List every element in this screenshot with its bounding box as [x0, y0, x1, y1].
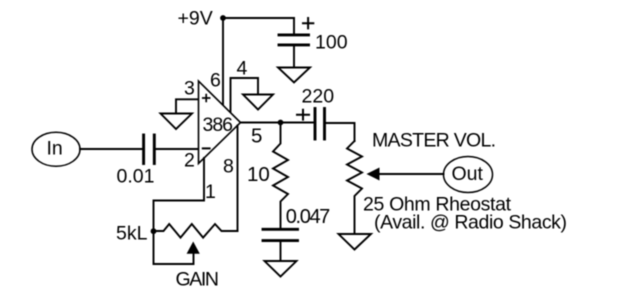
wire from In to coupling cap [80, 148, 142, 150]
wire 100 cap top stub [293, 18, 295, 34]
svg-text:8: 8 [223, 156, 234, 178]
svg-text:3: 3 [184, 78, 195, 100]
svg-text:+9V: +9V [178, 8, 213, 30]
svg-text:0.01: 0.01 [117, 166, 155, 188]
rheostat MASTER VOL zigzag [347, 141, 362, 234]
wiper arrow from Out [379, 173, 444, 175]
node Out oval [444, 157, 493, 193]
ground under 0.047 [265, 261, 297, 277]
svg-text:4: 4 [237, 58, 248, 80]
op-amp U1 386 triangle [199, 81, 241, 164]
svg-text:100: 100 [315, 32, 348, 54]
svg-text:0.047: 0.047 [286, 206, 331, 228]
wire 220 cap to rheostat [326, 123, 355, 141]
ground under 100 cap [278, 68, 310, 83]
capacitor C 220 plates [314, 109, 317, 140]
svg-text:10: 10 [247, 163, 270, 186]
svg-text:In: In [47, 138, 63, 160]
svg-text:Out: Out [452, 163, 484, 185]
wire cap to pin 2 [156, 148, 199, 150]
wire +9V rail [223, 17, 294, 19]
svg-text:MASTER VOL.: MASTER VOL. [372, 130, 496, 152]
svg-text:386: 386 [203, 114, 234, 136]
node In oval [32, 132, 80, 166]
wire pin 6 vertical [222, 18, 224, 105]
wire 100 cap bottom stub [293, 46, 295, 67]
ground at pin 4 [243, 95, 273, 110]
svg-text:2: 2 [184, 150, 195, 172]
capacitor C 0.047 plates [263, 228, 298, 231]
node junction dot on pin 5 wire [278, 120, 284, 126]
capacitor C 0.01 plates [142, 135, 145, 164]
node dot pot left terminal [151, 228, 157, 234]
svg-text:6: 6 [210, 70, 221, 92]
capacitor C 100 plates [279, 33, 309, 36]
capacitor 220 polarity plus [297, 110, 309, 120]
wire 0.047 to ground [280, 242, 282, 261]
wire pin 5 output [241, 122, 314, 124]
op-amp minus input mark [203, 147, 210, 149]
svg-text:220: 220 [302, 86, 335, 108]
wire pin 8 down to pot [237, 126, 239, 232]
capacitor 100 polarity plus [303, 18, 313, 28]
node junction dot at +9V rail [220, 15, 226, 21]
svg-text:5: 5 [251, 125, 262, 148]
resistor R 10 zigzag [273, 123, 288, 229]
svg-text:GAIN: GAIN [176, 269, 220, 289]
ground under rheostat [339, 234, 372, 250]
ground at pin 3 [161, 114, 193, 130]
wire pin 4 L-shape [231, 78, 259, 112]
wire pin 1 down to pot [154, 158, 205, 264]
svg-text:5kL: 5kL [116, 223, 148, 245]
op-amp plus input mark [203, 95, 210, 102]
svg-text:1: 1 [205, 181, 216, 203]
svg-text:(Avail. @ Radio Shack): (Avail. @ Radio Shack) [374, 212, 567, 234]
pot wiper arrow GAIN [187, 242, 200, 254]
potentiometer 5kL zigzag [154, 224, 238, 238]
wire pin 3 L-shape [176, 99, 199, 113]
